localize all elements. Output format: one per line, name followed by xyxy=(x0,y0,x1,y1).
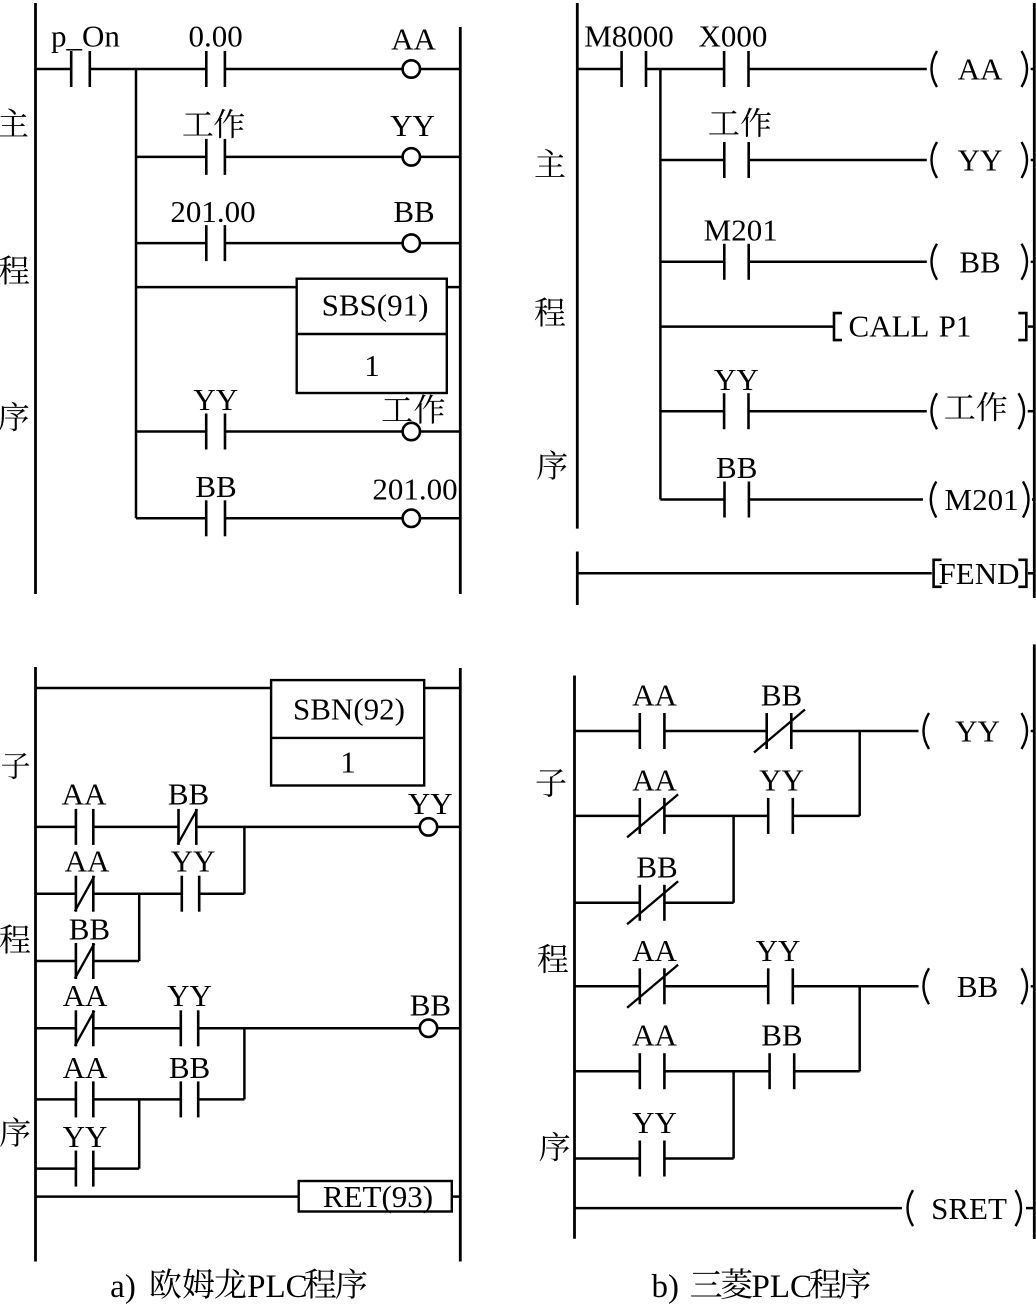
junction vertical wire xyxy=(858,986,861,1071)
right power rail (Mitsubishi main) xyxy=(1033,3,1036,598)
wire xyxy=(420,156,460,159)
wire xyxy=(1028,572,1034,575)
junction vertical wire xyxy=(138,1099,141,1168)
junction vertical wire xyxy=(138,894,141,961)
label 程 (Mitsubishi main) xyxy=(535,297,565,326)
coil AA xyxy=(932,51,1028,87)
coil YY xyxy=(420,818,437,835)
svg-text:1: 1 xyxy=(364,348,380,383)
bracket ] (CALL) xyxy=(1018,313,1026,340)
svg-text:201.00: 201.00 xyxy=(170,194,255,229)
contact YY xyxy=(206,414,225,450)
wire xyxy=(660,410,724,413)
wire xyxy=(424,687,460,690)
svg-text:M8000: M8000 xyxy=(584,19,674,54)
contact AA NC xyxy=(627,794,678,837)
contact YY xyxy=(768,798,793,834)
contact BB NC xyxy=(178,809,198,845)
wire xyxy=(664,902,733,905)
wire xyxy=(36,1167,76,1170)
svg-text:YY: YY xyxy=(390,108,435,143)
wire xyxy=(93,826,178,829)
svg-text:YY: YY xyxy=(171,844,216,879)
wire xyxy=(420,242,460,245)
coil SRET xyxy=(908,1190,1022,1226)
wire xyxy=(575,1207,902,1210)
wire xyxy=(794,1070,860,1073)
svg-text:M201: M201 xyxy=(704,213,778,248)
label 工 (contact 工作) xyxy=(709,110,738,134)
wire xyxy=(793,985,919,988)
wire xyxy=(577,68,621,71)
svg-text:AA: AA xyxy=(391,22,436,57)
junction vertical wire xyxy=(243,827,246,894)
wire xyxy=(90,68,207,71)
junction vertical wire xyxy=(243,1028,246,1099)
contact BB NC xyxy=(627,881,678,924)
contact 201.00 xyxy=(206,225,225,261)
coil YY xyxy=(924,713,1028,749)
contact X000 xyxy=(724,51,748,87)
wire xyxy=(136,286,297,289)
svg-text:YY: YY xyxy=(759,762,804,797)
svg-text:PLC: PLC xyxy=(752,1269,813,1305)
wire xyxy=(36,1195,299,1198)
wire xyxy=(136,430,206,433)
wire xyxy=(660,159,724,162)
wire xyxy=(225,517,403,520)
wire xyxy=(136,242,206,245)
label 主 (Omron main) xyxy=(0,109,28,137)
wire xyxy=(575,730,640,733)
svg-text:FEND: FEND xyxy=(939,556,1020,591)
wire xyxy=(420,68,460,71)
contact YY xyxy=(768,968,793,1004)
svg-text:BB: BB xyxy=(761,1018,802,1053)
contact BB xyxy=(725,482,749,518)
svg-text:AA: AA xyxy=(632,933,677,968)
svg-text:YY: YY xyxy=(408,786,453,821)
return box RET(93) xyxy=(299,1181,452,1212)
svg-text:1: 1 xyxy=(340,745,356,780)
svg-text:BB: BB xyxy=(168,777,209,812)
wire xyxy=(198,1027,420,1030)
coil 201.00 xyxy=(403,510,420,527)
wire xyxy=(225,242,403,245)
subroutine box SBN(92) xyxy=(271,680,424,785)
contact AA NC xyxy=(627,965,678,1008)
right power rail (Mitsubishi sub) xyxy=(1033,644,1036,1239)
wire xyxy=(196,826,419,829)
svg-text:AA: AA xyxy=(63,1050,108,1085)
contact AA xyxy=(76,809,93,845)
caption 龙 xyxy=(215,1268,246,1298)
svg-text:YY: YY xyxy=(955,714,1000,749)
wire xyxy=(36,68,72,71)
label 序 (Omron main) xyxy=(0,402,28,432)
wire xyxy=(660,261,724,264)
wire xyxy=(93,1098,180,1101)
branch vertical wire xyxy=(135,69,138,518)
svg-text:CALL: CALL xyxy=(849,309,930,344)
svg-text:YY: YY xyxy=(193,382,238,417)
wire xyxy=(664,1070,769,1073)
contact 0.00 xyxy=(206,51,225,87)
svg-text:P1: P1 xyxy=(939,309,972,344)
contact AA NC xyxy=(75,1010,95,1046)
caption 序 (a) xyxy=(336,1268,367,1298)
wire xyxy=(1028,410,1035,413)
label 工 (coil 工作) xyxy=(945,395,974,419)
label 作 (contact 工作) xyxy=(214,109,244,138)
wire xyxy=(452,1195,461,1198)
svg-text:BB: BB xyxy=(716,450,757,485)
svg-text:BB: BB xyxy=(410,988,451,1023)
svg-text:b): b) xyxy=(651,1269,679,1305)
svg-text:AA: AA xyxy=(65,844,110,879)
contact YY xyxy=(640,1141,665,1177)
contact BB xyxy=(181,1081,198,1117)
contact AA NC xyxy=(75,876,95,912)
contact 工作 xyxy=(206,139,225,175)
wire xyxy=(36,1098,76,1101)
svg-text:SBS(91): SBS(91) xyxy=(322,288,429,323)
svg-text:M201: M201 xyxy=(945,482,1019,517)
wire xyxy=(664,1157,733,1160)
wire xyxy=(93,1167,139,1170)
bracket [ (FEND) xyxy=(934,560,942,587)
wire xyxy=(575,1070,640,1073)
wire xyxy=(36,960,76,963)
bracket ] (FEND) xyxy=(1018,560,1026,587)
contact BB xyxy=(206,500,225,536)
coil M201 xyxy=(931,482,1029,518)
right power rail (Omron main) xyxy=(459,27,462,594)
junction vertical wire xyxy=(732,816,735,903)
contact BB xyxy=(770,1053,795,1089)
svg-text:AA: AA xyxy=(958,52,1003,87)
SBS box divider xyxy=(297,333,447,335)
wire xyxy=(664,730,766,733)
caption 程 (b) xyxy=(810,1268,841,1298)
wire xyxy=(1031,68,1035,71)
contact BB NC xyxy=(75,943,95,979)
wire xyxy=(199,892,244,895)
svg-text:a): a) xyxy=(110,1269,136,1305)
wire xyxy=(225,156,403,159)
caption 程 (a) xyxy=(305,1268,336,1298)
wire xyxy=(1031,159,1035,162)
contact YY xyxy=(76,1151,93,1187)
caption 欧 xyxy=(150,1268,180,1298)
coil 工作 xyxy=(932,393,1025,429)
wire xyxy=(36,1027,76,1030)
coil YY xyxy=(932,142,1028,178)
svg-text:BB: BB xyxy=(393,194,434,229)
branch vertical wire xyxy=(659,69,662,500)
wire xyxy=(1031,985,1035,988)
svg-text:AA: AA xyxy=(62,777,107,812)
coil BB xyxy=(932,244,1028,280)
svg-text:X000: X000 xyxy=(699,19,768,54)
left power rail (Omron sub) xyxy=(34,667,37,1262)
left power rail (Mitsubishi sub) xyxy=(573,676,576,1239)
svg-text:YY: YY xyxy=(714,362,759,397)
label 子 (Omron sub) xyxy=(2,753,29,779)
contact M201 xyxy=(724,244,748,280)
wire xyxy=(36,687,272,690)
wire xyxy=(575,902,640,905)
wire xyxy=(36,892,76,895)
wire xyxy=(437,1027,460,1030)
svg-text:p_On: p_On xyxy=(51,19,120,54)
label 作 (coil 工作) xyxy=(977,392,1007,421)
svg-text:SRET: SRET xyxy=(931,1191,1007,1226)
wire xyxy=(93,1027,180,1030)
label 作 (contact 工作) xyxy=(741,108,771,137)
subroutine box SBS(91) xyxy=(297,279,447,393)
wire xyxy=(749,68,927,71)
svg-text:YY: YY xyxy=(167,978,212,1013)
junction vertical wire xyxy=(858,731,861,816)
svg-text:BB: BB xyxy=(195,469,236,504)
wire xyxy=(575,985,640,988)
contact AA xyxy=(76,1081,93,1117)
wire xyxy=(660,498,724,501)
wire xyxy=(1028,325,1034,328)
svg-text:YY: YY xyxy=(958,143,1003,178)
wire xyxy=(749,261,927,264)
svg-text:YY: YY xyxy=(63,1119,108,1154)
coil YY xyxy=(403,148,420,165)
label 程 (Omron sub) xyxy=(0,924,30,953)
wire xyxy=(1031,730,1035,733)
svg-text:AA: AA xyxy=(632,762,677,797)
contact 工作 xyxy=(724,142,748,178)
left power rail segment (FEND) xyxy=(576,552,579,606)
label 主 (Mitsubishi main) xyxy=(535,149,564,177)
wire xyxy=(575,815,640,818)
svg-text:YY: YY xyxy=(632,1105,677,1140)
wire xyxy=(791,730,918,733)
caption 姆 xyxy=(183,1268,214,1298)
svg-text:BB: BB xyxy=(636,849,677,884)
label 工 (coil 工作) xyxy=(382,397,411,421)
contact YY xyxy=(182,876,199,912)
wire xyxy=(646,68,724,71)
svg-text:AA: AA xyxy=(63,978,108,1013)
wire xyxy=(749,159,927,162)
wire xyxy=(1031,261,1035,264)
svg-text:BB: BB xyxy=(957,969,998,1004)
wire xyxy=(420,517,460,520)
label 序 (Omron sub) xyxy=(0,1117,30,1147)
contact YY xyxy=(181,1010,198,1046)
wire xyxy=(1026,1207,1034,1210)
svg-text:BB: BB xyxy=(761,678,802,713)
junction vertical wire xyxy=(732,1071,735,1158)
svg-text:BB: BB xyxy=(959,245,1000,280)
wire xyxy=(1032,498,1034,501)
coil BB xyxy=(403,234,420,251)
svg-text:RET(93): RET(93) xyxy=(323,1179,433,1214)
coil 工作 xyxy=(403,423,420,440)
SBN box divider xyxy=(271,737,424,739)
wire xyxy=(749,410,927,413)
bracket [ (CALL) xyxy=(834,313,842,340)
svg-text:YY: YY xyxy=(756,933,801,968)
wire xyxy=(749,498,923,501)
wire xyxy=(225,430,403,433)
left power rail (Omron main) xyxy=(34,3,37,594)
wire xyxy=(36,826,76,829)
caption 菱 xyxy=(721,1268,752,1299)
label 工 (contact 工作) xyxy=(183,112,212,136)
wire xyxy=(664,815,768,818)
wire xyxy=(577,572,932,575)
caption 三 xyxy=(691,1271,722,1297)
svg-text:SBN(92): SBN(92) xyxy=(293,692,405,727)
svg-text:BB: BB xyxy=(69,912,110,947)
right power rail (Omron sub) xyxy=(459,668,462,1262)
wire xyxy=(664,985,768,988)
contact AA xyxy=(640,1053,665,1089)
left power rail (Mitsubishi main) xyxy=(576,3,579,529)
coil AA xyxy=(403,60,420,77)
svg-text:201.00: 201.00 xyxy=(372,472,457,507)
wire xyxy=(198,1098,244,1101)
wire xyxy=(93,892,182,895)
wire xyxy=(793,815,860,818)
wire xyxy=(437,826,460,829)
contact YY xyxy=(724,393,748,429)
wire xyxy=(93,960,139,963)
svg-text:BB: BB xyxy=(169,1050,210,1085)
wire xyxy=(136,156,206,159)
label 程 (Mitsubishi sub) xyxy=(538,944,568,973)
label 序 (Mitsubishi main) xyxy=(537,450,567,480)
contact p_On xyxy=(71,51,90,87)
svg-text:AA: AA xyxy=(632,1018,677,1053)
label 子 (Mitsubishi sub) xyxy=(536,769,565,797)
svg-text:0.00: 0.00 xyxy=(188,19,242,54)
wire xyxy=(447,286,461,289)
svg-text:PLC: PLC xyxy=(247,1269,308,1305)
svg-text:AA: AA xyxy=(632,678,677,713)
label 序 (Mitsubishi sub) xyxy=(540,1132,570,1162)
contact BB NC xyxy=(754,710,805,753)
contact AA xyxy=(640,713,665,749)
contact M8000 xyxy=(622,51,646,87)
wire xyxy=(575,1157,640,1160)
wire xyxy=(225,68,403,71)
label 程 (Omron main) xyxy=(0,255,29,284)
caption 序 (b) xyxy=(839,1268,870,1298)
wire xyxy=(420,430,460,433)
coil BB xyxy=(924,968,1028,1004)
wire xyxy=(136,517,206,520)
wire xyxy=(660,325,833,328)
coil BB xyxy=(420,1020,437,1037)
label 作 (coil 工作) xyxy=(415,394,445,423)
